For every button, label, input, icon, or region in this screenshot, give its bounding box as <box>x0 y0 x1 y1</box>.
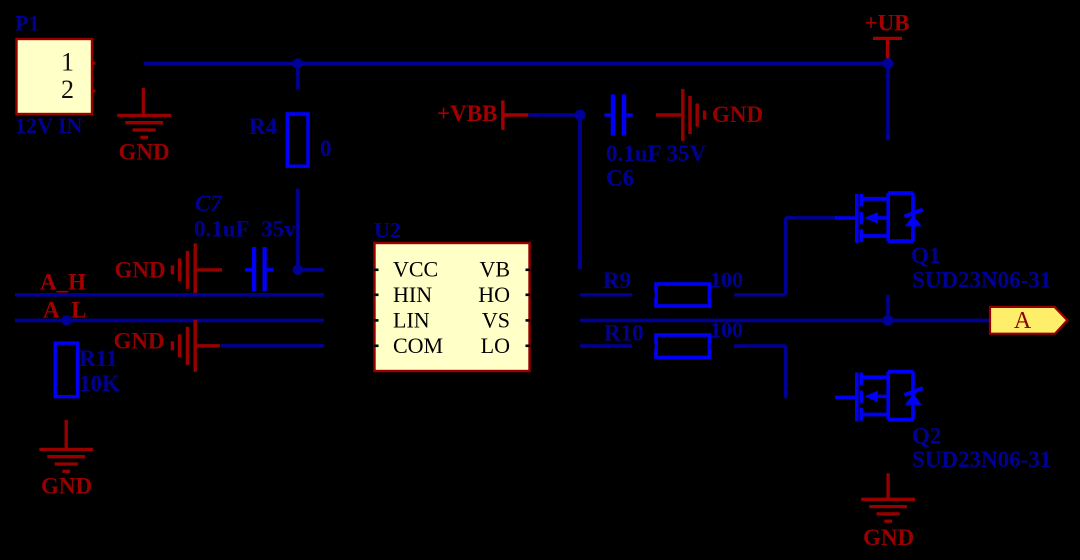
R10 pin nubs <box>654 343 713 349</box>
wire rail to R4 <box>296 64 299 90</box>
port A output flag <box>990 307 1067 334</box>
svg-text:Q2: Q2 <box>912 424 941 449</box>
svg-text:A_H: A_H <box>40 270 86 295</box>
wire U2 LO to R10 <box>580 344 632 347</box>
svg-text:Q1: Q1 <box>911 243 940 268</box>
svg-text:12V IN: 12V IN <box>15 113 83 138</box>
capacitor C6 <box>604 94 632 135</box>
svg-text:2: 2 <box>61 75 74 104</box>
R9 pin nubs <box>654 292 713 298</box>
wire riser up <box>784 218 787 295</box>
transistor Q2 <box>835 372 923 422</box>
wire U2 VS / phase node A line <box>580 319 990 323</box>
ground GND (below R11) <box>39 420 93 471</box>
resistor R9 <box>656 284 710 306</box>
svg-text:A: A <box>1014 308 1032 334</box>
svg-text:LO: LO <box>481 333 510 358</box>
wire riser down to Q2 gate <box>784 346 787 398</box>
wire R4 to node VCC <box>296 189 299 270</box>
wire R9 to Q1 gate riser <box>734 293 786 296</box>
svg-text:GND: GND <box>712 102 763 127</box>
junction VB node <box>575 110 586 121</box>
wire rail down to Q1 drain <box>886 64 890 141</box>
svg-text:+VBB: +VBB <box>437 101 497 126</box>
wire node to U2 VCC pin <box>298 268 324 271</box>
svg-text:GND: GND <box>863 525 914 550</box>
op-amp driver U2 <box>375 243 530 371</box>
svg-text:GND: GND <box>114 329 165 354</box>
resistor R10 <box>656 335 710 358</box>
svg-text:VCC: VCC <box>393 257 438 282</box>
svg-text:100: 100 <box>710 317 743 342</box>
svg-text:C7: C7 <box>195 191 223 216</box>
svg-text:R11: R11 <box>79 346 117 371</box>
ground GND (below Q2) <box>861 473 915 521</box>
svg-text:SUD23N06-31: SUD23N06-31 <box>912 268 1051 293</box>
ground GND sideways (left of C7) <box>172 243 222 295</box>
svg-text:P1: P1 <box>15 11 39 36</box>
pin 1 nub <box>92 62 95 65</box>
svg-text:1: 1 <box>61 48 74 77</box>
ground GND (below P1) <box>117 88 171 137</box>
svg-text:0.1uF 35v: 0.1uF 35v <box>194 217 296 242</box>
svg-text:HO: HO <box>478 282 510 307</box>
svg-text:R10: R10 <box>604 321 644 346</box>
wire COM to U2 <box>221 344 324 347</box>
svg-text:VS: VS <box>482 308 510 333</box>
wire A_H to U2 HIN <box>15 293 324 297</box>
svg-text:HIN: HIN <box>393 282 432 307</box>
junction A node <box>883 315 894 326</box>
U2 right pin nubs <box>526 270 531 346</box>
wire Q1 source to A node <box>886 295 889 321</box>
svg-text:GND: GND <box>118 140 169 165</box>
connector P1 <box>17 39 93 114</box>
ground GND sideways (COM, below A_L) <box>172 320 219 372</box>
svg-text:SUD23N06-31: SUD23N06-31 <box>912 447 1051 472</box>
svg-text:100: 100 <box>710 267 743 292</box>
U2 left pin nubs <box>374 270 379 346</box>
svg-text:GND: GND <box>41 474 92 499</box>
junction at R4 top <box>293 58 303 68</box>
wire +12V top rail <box>144 62 888 66</box>
junction A_L / R11 <box>61 315 71 325</box>
svg-text:LIN: LIN <box>393 308 430 333</box>
svg-text:GND: GND <box>115 258 166 283</box>
ground GND sideways (right of C6) <box>656 89 705 141</box>
resistor R4 <box>287 114 308 166</box>
svg-text:10K: 10K <box>79 371 120 396</box>
wire to Q1 gate <box>786 216 837 219</box>
wire A_L to U2 LIN <box>15 319 324 323</box>
capacitor C7 <box>245 247 274 291</box>
wire VB node down to U2 VB pin <box>578 115 582 269</box>
svg-text:VB: VB <box>479 257 510 282</box>
svg-text:C6: C6 <box>606 166 634 191</box>
pin 2 nub <box>92 90 95 93</box>
resistor R11 <box>55 343 77 397</box>
svg-text:0.1uF 35V: 0.1uF 35V <box>606 141 706 166</box>
svg-text:COM: COM <box>393 333 443 358</box>
svg-text:0: 0 <box>320 136 332 161</box>
junction +UB / rail <box>883 58 894 69</box>
transistor Q1 <box>835 193 923 243</box>
svg-text:U2: U2 <box>374 218 401 243</box>
svg-text:R9: R9 <box>603 268 631 293</box>
junction C7/R4/VCC node <box>293 265 303 275</box>
wire R10 to Q2 gate riser <box>734 344 786 347</box>
svg-text:+UB: +UB <box>864 11 909 36</box>
wire U2 HO to R9 <box>580 293 632 296</box>
svg-text:R4: R4 <box>249 114 278 139</box>
wire +VBB to VB node <box>528 113 580 116</box>
